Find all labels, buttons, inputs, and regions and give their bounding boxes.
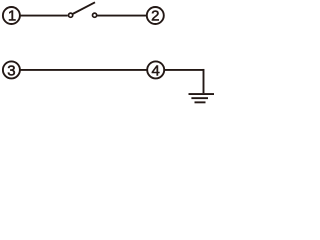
svg-text:1: 1 xyxy=(8,8,16,25)
wire switch to terminal 2 xyxy=(97,15,146,17)
wire terminal 4 to ground, horizontal xyxy=(164,69,203,71)
switch S1 right contact xyxy=(93,13,97,17)
terminal 2 xyxy=(147,7,164,25)
wire to ground, vertical xyxy=(203,69,205,93)
terminal 3 xyxy=(3,61,20,79)
wire terminal 3 to terminal 4 xyxy=(20,69,147,71)
switch S1 left contact xyxy=(69,13,73,17)
wire terminal1 to switch xyxy=(20,15,68,17)
svg-text:4: 4 xyxy=(152,62,160,79)
svg-text:3: 3 xyxy=(7,62,15,79)
ground symbol xyxy=(189,93,215,103)
switch S1 blade xyxy=(73,2,95,14)
terminal 4 xyxy=(147,61,164,79)
terminal 1 xyxy=(3,7,20,25)
svg-text:2: 2 xyxy=(151,8,159,25)
